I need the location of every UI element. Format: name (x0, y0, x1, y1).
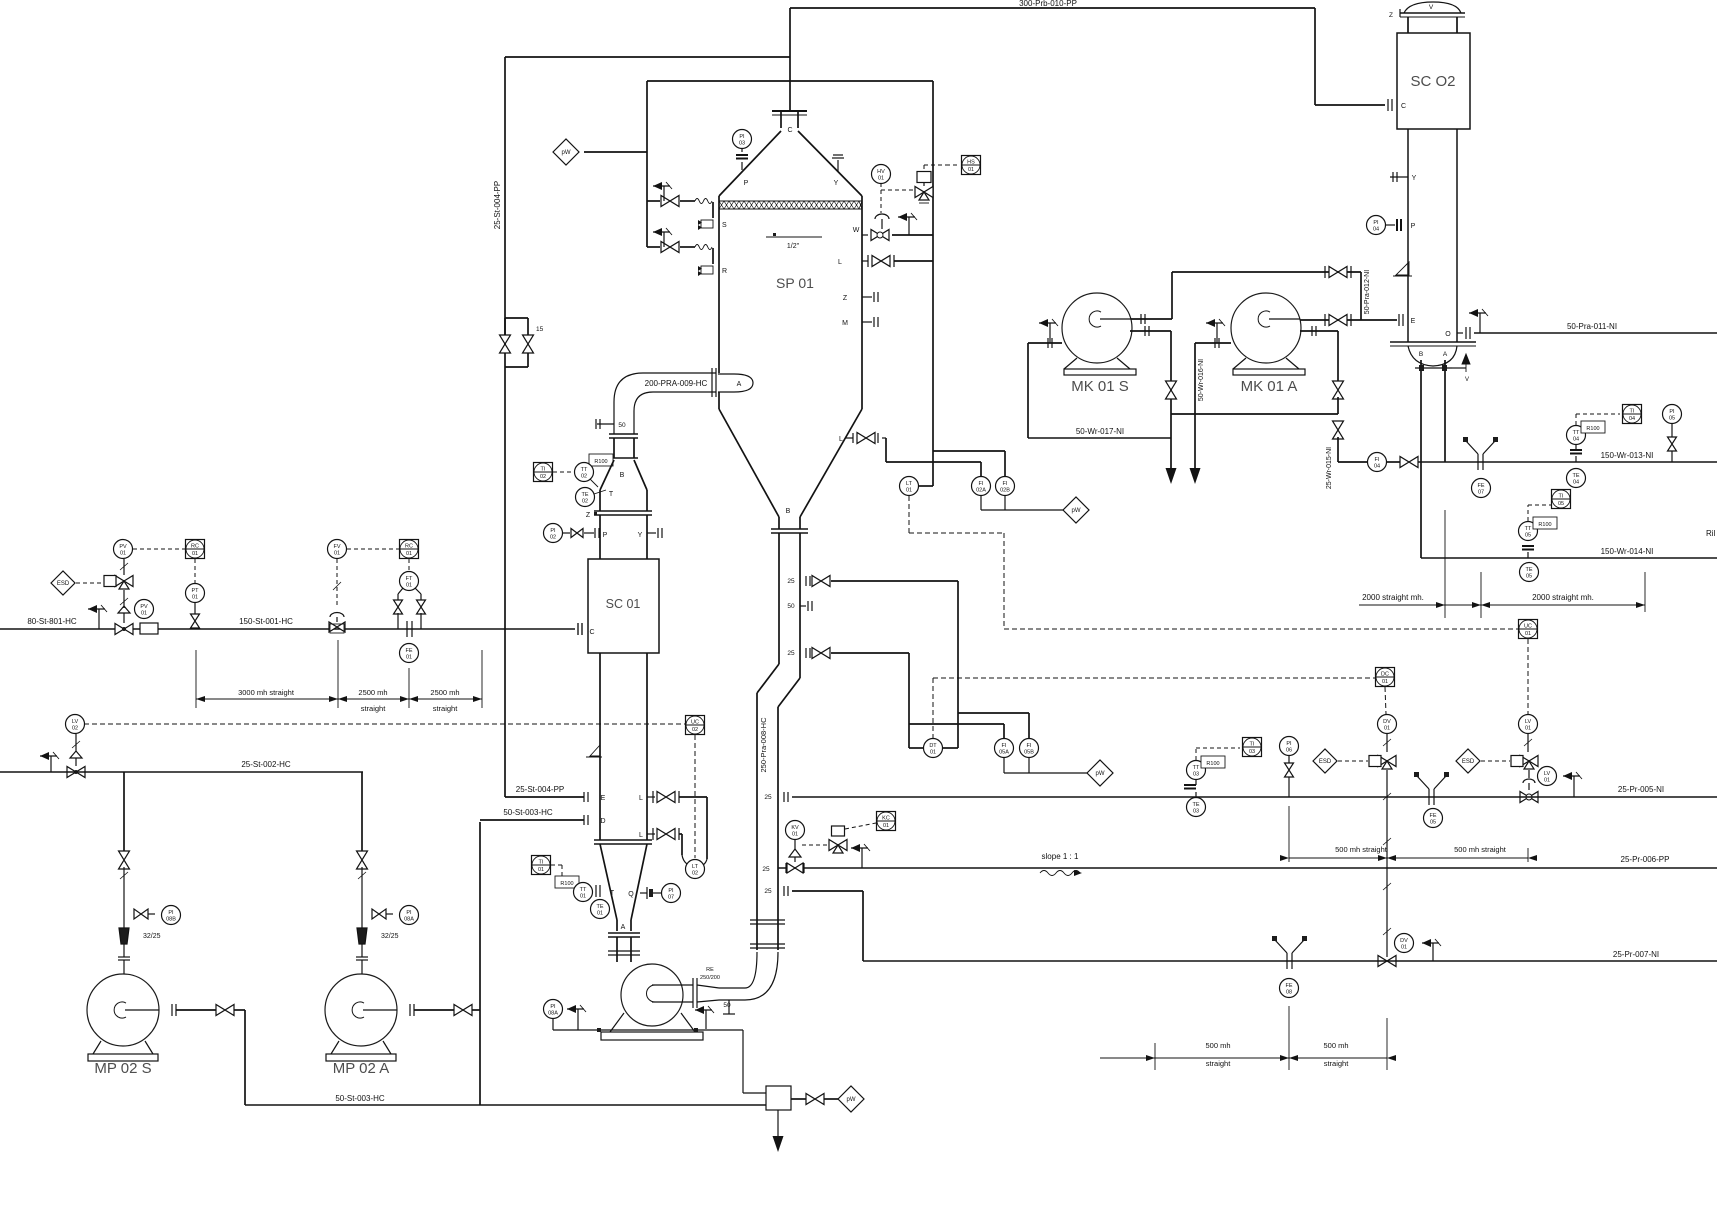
pipe 250-Pra-008-HC upper section (778, 533, 780, 664)
line 25-Pr-007-NI (863, 960, 1717, 962)
instrument UC02 (686, 716, 705, 735)
svg-text:150-St-001-HC: 150-St-001-HC (239, 617, 293, 626)
nozzle Y (1390, 176, 1408, 178)
vessel SC02 barrel (1407, 129, 1409, 342)
svg-text:04: 04 (1629, 416, 1635, 422)
svg-text:B: B (786, 508, 791, 515)
instrument PI05 with valve (1663, 405, 1682, 424)
pipe 250-Pra-008-HC lower section (756, 693, 758, 950)
svg-text:straight: straight (361, 704, 387, 713)
svg-text:500 mh straight: 500 mh straight (1335, 845, 1388, 854)
seal S (701, 220, 713, 228)
svg-text:LV: LV (1525, 719, 1532, 725)
instrument PV01 local (135, 600, 154, 619)
svg-text:Q: Q (628, 891, 634, 898)
instrument LT01 (900, 477, 919, 496)
DT01 to DC01 dashed (932, 678, 934, 739)
svg-text:08B: 08B (166, 917, 176, 923)
svg-text:TE: TE (1572, 473, 1579, 479)
riser to SC01 D (479, 822, 481, 1105)
svg-text:R100: R100 (1538, 522, 1551, 528)
branch PI gauge (361, 907, 363, 928)
drain arrow (777, 1110, 779, 1136)
svg-text:TT: TT (581, 467, 588, 473)
venturi flange (609, 457, 638, 459)
svg-text:V: V (1429, 4, 1434, 11)
svg-text:V: V (1465, 377, 1469, 383)
pump MP02 (87, 974, 159, 1046)
svg-text:T: T (609, 491, 614, 498)
svg-text:UC: UC (1524, 624, 1532, 630)
svg-text:25-Wr-015-NI: 25-Wr-015-NI (1326, 447, 1333, 489)
nozzle C inlet (577, 623, 579, 635)
nozzle A oval (718, 374, 753, 392)
valve spray branch 2 (647, 246, 660, 248)
svg-text:PI: PI (550, 1004, 556, 1010)
wire SP01 top riser (789, 8, 791, 111)
pipe jog (757, 664, 779, 693)
svg-text:04: 04 (1573, 437, 1579, 443)
instrument HV01 (872, 165, 891, 184)
svg-text:LV: LV (1544, 771, 1551, 777)
vessel SC01 body (588, 559, 659, 653)
line 150-Wr-013-NI (1418, 461, 1717, 463)
pump MP01 volute (621, 964, 683, 1026)
seal water line (553, 1029, 743, 1031)
svg-text:KC: KC (882, 816, 890, 822)
svg-text:25-Pr-005-NI: 25-Pr-005-NI (1618, 785, 1664, 794)
svg-text:FE: FE (1285, 983, 1292, 989)
nozzle Y top cone (837, 160, 839, 172)
svg-text:02: 02 (582, 499, 588, 505)
svg-text:TT: TT (1573, 430, 1580, 436)
svg-text:01: 01 (1382, 679, 1388, 685)
MK01A discharge to E (1300, 319, 1397, 321)
line 25-Pr-005-NI (792, 796, 1717, 798)
svg-text:2000 straight mh.: 2000 straight mh. (1532, 593, 1594, 602)
inline silencer (140, 623, 158, 634)
pump base (93, 1041, 101, 1054)
svg-text:04: 04 (1573, 480, 1579, 486)
svg-text:01: 01 (580, 894, 586, 900)
nozzle P with PI02 (544, 524, 563, 543)
svg-text:25-St-004-PP: 25-St-004-PP (493, 181, 502, 229)
svg-text:01: 01 (1544, 778, 1550, 784)
utility diamond pW (838, 1086, 864, 1112)
svg-text:LT: LT (906, 481, 913, 487)
vessel SC01 lower barrel (599, 653, 601, 840)
wire SP01 enclosure box (647, 80, 933, 82)
LT01 to UC01 dashed (908, 496, 910, 533)
svg-text:RC: RC (191, 544, 199, 550)
vent on 801 line (98, 609, 100, 629)
svg-text:HV: HV (877, 169, 885, 175)
svg-text:32/25: 32/25 (381, 933, 399, 940)
svg-text:PV: PV (140, 604, 148, 610)
dimension 3000/2500/2500 (195, 650, 197, 708)
dimension 500mh (on 007) (1154, 1043, 1156, 1070)
svg-text:E: E (601, 795, 606, 802)
node C SC02 inlet flange (1387, 99, 1389, 111)
svg-text:TI: TI (1250, 742, 1255, 748)
svg-text:250/200: 250/200 (700, 975, 720, 981)
PI06 with valve (1280, 737, 1299, 756)
stub 50 on elbow (597, 423, 614, 425)
svg-text:25: 25 (764, 794, 772, 801)
svg-text:L: L (839, 436, 843, 443)
instrument cluster TT01 (532, 856, 551, 875)
svg-text:A: A (1443, 351, 1448, 358)
svg-text:SP 01: SP 01 (776, 275, 814, 291)
instrument RC01 (186, 540, 205, 559)
svg-text:1/2": 1/2" (787, 243, 800, 250)
svg-text:25-St-004-PP: 25-St-004-PP (516, 785, 564, 794)
svg-text:FI: FI (979, 481, 984, 487)
svg-text:03: 03 (1193, 809, 1199, 815)
MK01S lower stub (1130, 330, 1171, 332)
svg-text:Y: Y (1412, 175, 1417, 182)
svg-text:25-St-002-HC: 25-St-002-HC (241, 760, 291, 769)
control valve FV01 (328, 540, 347, 559)
svg-text:O: O (1445, 331, 1451, 338)
svg-text:slope 1 : 1: slope 1 : 1 (1042, 852, 1079, 861)
svg-text:TT: TT (580, 887, 587, 893)
svg-text:50-St-003-HC: 50-St-003-HC (503, 808, 553, 817)
svg-text:08: 08 (1286, 990, 1292, 996)
svg-text:DV: DV (1400, 938, 1408, 944)
svg-text:L: L (838, 259, 842, 266)
svg-text:05: 05 (1526, 574, 1532, 580)
blower MK01 (1231, 293, 1301, 363)
svg-text:R100: R100 (594, 459, 607, 465)
svg-text:01: 01 (406, 583, 412, 589)
svg-text:01: 01 (792, 832, 798, 838)
blower MK01 (1062, 293, 1132, 363)
instrument cluster TT02 (534, 463, 553, 482)
ESD diamond (51, 571, 75, 595)
svg-text:R100: R100 (560, 881, 573, 887)
svg-text:Z: Z (843, 295, 848, 302)
svg-text:TT: TT (1525, 526, 1532, 532)
svg-text:HS: HS (967, 160, 975, 166)
instrument FE01 (400, 644, 419, 663)
SC01 bottom cone (600, 844, 617, 920)
svg-text:FI: FI (1003, 481, 1008, 487)
svg-text:PT: PT (191, 588, 199, 594)
svg-text:PI: PI (739, 134, 745, 140)
venturi cone (600, 460, 614, 490)
vessel SP01 shell walls (718, 196, 720, 373)
vessel SP01 top neck and flange (780, 111, 782, 128)
line 150-Wr-014-NI (1421, 557, 1717, 559)
pump base (331, 1041, 339, 1054)
svg-text:FT: FT (406, 576, 413, 582)
instrument PV01 (114, 540, 133, 559)
svg-text:SC 01: SC 01 (606, 597, 641, 611)
svg-text:TI: TI (1559, 494, 1564, 500)
svg-text:150-Wr-014-NI: 150-Wr-014-NI (1601, 547, 1654, 556)
svg-text:25-Pr-006-PP: 25-Pr-006-PP (1621, 855, 1670, 864)
svg-text:01: 01 (538, 867, 544, 873)
svg-text:150-Wr-013-NI: 150-Wr-013-NI (1601, 451, 1654, 460)
discharge elbow (745, 952, 778, 1000)
svg-text:MK 01 S: MK 01 S (1071, 378, 1129, 395)
svg-text:MK 01 A: MK 01 A (1241, 378, 1298, 395)
svg-text:P: P (1411, 223, 1416, 230)
instrument DT01 (924, 739, 943, 758)
svg-text:05: 05 (1669, 416, 1675, 422)
drain box (766, 1086, 791, 1110)
svg-text:FI: FI (1002, 743, 1007, 749)
reducer 32/25 (357, 928, 367, 944)
svg-text:02: 02 (550, 535, 556, 541)
svg-text:Y: Y (834, 180, 839, 187)
vent on W line (908, 217, 910, 235)
SC02 bottom head (1408, 346, 1457, 366)
svg-text:FE: FE (405, 648, 412, 654)
svg-text:500 mh straight: 500 mh straight (1454, 845, 1507, 854)
instrument R05 on P nozzle (733, 130, 752, 149)
svg-text:PI: PI (1669, 409, 1675, 415)
svg-text:02B: 02B (1000, 488, 1010, 494)
svg-text:01: 01 (968, 167, 974, 173)
vessel SC02 dome (1404, 2, 1461, 13)
svg-text:FI: FI (1375, 457, 1380, 463)
svg-text:LV: LV (72, 719, 79, 725)
svg-text:PI: PI (550, 528, 556, 534)
svg-text:TE: TE (1525, 567, 1532, 573)
valve to FI04 (1333, 421, 1344, 439)
svg-text:02A: 02A (976, 488, 986, 494)
blower base (1064, 358, 1077, 369)
svg-text:TT: TT (1193, 765, 1200, 771)
svg-text:LT: LT (692, 864, 699, 870)
svg-text:25: 25 (764, 888, 772, 895)
instrument PI08A (544, 1000, 563, 1019)
svg-text:TI: TI (1630, 409, 1635, 415)
svg-text:DT: DT (929, 743, 937, 749)
svg-text:UC: UC (691, 720, 699, 726)
svg-text:2500 mh: 2500 mh (358, 688, 387, 697)
svg-text:C: C (1401, 103, 1406, 110)
line 25-St-002-HC (75, 734, 77, 752)
svg-text:DC: DC (1381, 672, 1389, 678)
svg-text:32/25: 32/25 (143, 933, 161, 940)
svg-text:01: 01 (1525, 726, 1531, 732)
svg-text:250-Pra-008-HC: 250-Pra-008-HC (759, 717, 768, 773)
line 25-Pr-006-PP (778, 867, 1717, 869)
svg-text:ESD: ESD (1319, 759, 1332, 765)
discharge valve pump A (414, 1009, 454, 1011)
svg-text:05: 05 (1430, 820, 1436, 826)
svg-text:50-Pra-012-NI: 50-Pra-012-NI (1364, 270, 1371, 314)
svg-text:M: M (842, 320, 848, 327)
svg-text:08A: 08A (404, 917, 414, 923)
svg-text:01: 01 (192, 595, 198, 601)
svg-text:01: 01 (120, 551, 126, 557)
nozzle D (583, 815, 585, 825)
svg-text:300-Prb-010-PP: 300-Prb-010-PP (1019, 0, 1077, 8)
pump suction line (361, 772, 363, 853)
header 50-St-003-HC (245, 1104, 766, 1106)
MK01S discharge (1131, 318, 1172, 320)
svg-text:ESD: ESD (57, 581, 70, 587)
svg-text:B: B (620, 472, 625, 479)
svg-text:04: 04 (1374, 464, 1380, 470)
instrument FI02A FI02B (972, 477, 991, 496)
instrument LV02 (66, 715, 85, 734)
svg-text:80-St-801-HC: 80-St-801-HC (27, 617, 77, 626)
svg-text:50-Wr-017-NI: 50-Wr-017-NI (1076, 427, 1124, 436)
svg-text:03: 03 (739, 141, 745, 147)
svg-text:3000 mh straight: 3000 mh straight (238, 688, 295, 697)
svg-text:DV: DV (1383, 719, 1391, 725)
flanged joint (609, 433, 638, 435)
vessel SP01 top cone (719, 131, 781, 196)
svg-text:25: 25 (787, 578, 795, 585)
svg-text:pW: pW (1072, 508, 1081, 514)
svg-text:04: 04 (1373, 227, 1379, 233)
instrument RC01 second (400, 540, 419, 559)
svg-text:02: 02 (540, 474, 546, 480)
svg-text:L: L (639, 795, 643, 802)
svg-text:A: A (737, 381, 742, 388)
svg-text:P: P (744, 180, 749, 187)
svg-text:R: R (722, 268, 727, 275)
svg-text:PI: PI (1373, 220, 1379, 226)
svg-text:S: S (722, 222, 727, 229)
svg-text:02: 02 (581, 474, 587, 480)
svg-text:01: 01 (334, 551, 340, 557)
instrument PT01 (186, 584, 205, 603)
control valve PV01 3-way (115, 576, 133, 587)
nozzle P with PI04 (1367, 216, 1386, 235)
pipe 200-PRA-009-HC elbow (614, 373, 716, 434)
svg-text:02: 02 (72, 726, 78, 732)
branch PI gauge (123, 907, 125, 928)
svg-text:01: 01 (878, 176, 884, 182)
utility diamond pW (553, 139, 579, 165)
reducer 32/25 (119, 928, 129, 944)
svg-text:KV: KV (791, 825, 799, 831)
svg-text:E: E (1411, 318, 1416, 325)
drain tie with vent (1415, 367, 1452, 369)
instrument LT02 (686, 860, 705, 879)
svg-text:B: B (1419, 351, 1423, 358)
svg-text:MP 02 A: MP 02 A (333, 1060, 389, 1077)
svg-text:07: 07 (1478, 490, 1484, 496)
seal R (701, 266, 713, 274)
svg-text:A: A (621, 924, 626, 931)
svg-text:T: T (610, 890, 615, 897)
svg-text:25: 25 (787, 650, 795, 657)
SC02 bottom flange (1390, 341, 1476, 343)
svg-text:05B: 05B (1024, 750, 1034, 756)
nozzle E (1398, 319, 1400, 321)
svg-text:MP 02 S: MP 02 S (94, 1060, 151, 1077)
svg-text:C: C (589, 629, 594, 636)
svg-text:500 mh: 500 mh (1205, 1041, 1230, 1050)
svg-text:50: 50 (787, 603, 795, 610)
pump discharge (171, 1004, 173, 1016)
svg-text:pW: pW (1096, 771, 1105, 777)
instrument FI04 (1368, 453, 1387, 472)
line W/L enclosure drop (886, 461, 981, 463)
mist eliminator mesh band (719, 200, 862, 202)
svg-text:03: 03 (1249, 749, 1255, 755)
svg-text:50-St-003-HC: 50-St-003-HC (335, 1094, 385, 1103)
svg-text:2000 straight mh.: 2000 straight mh. (1362, 593, 1424, 602)
svg-text:01: 01 (1384, 726, 1390, 732)
svg-text:D: D (600, 818, 605, 825)
svg-text:25-Pr-007-NI: 25-Pr-007-NI (1613, 950, 1659, 959)
valve spray branch 1 (647, 200, 660, 202)
MK01S suction 50-Wr-017-NI (1028, 342, 1062, 344)
svg-text:SC O2: SC O2 (1410, 73, 1455, 90)
hand valve HS01 loop (962, 156, 981, 175)
internal weir triangle (586, 745, 602, 757)
svg-text:07: 07 (668, 895, 674, 901)
svg-text:TE: TE (596, 904, 603, 910)
svg-text:01: 01 (1401, 945, 1407, 951)
blower base (1233, 358, 1246, 369)
svg-text:500 mh: 500 mh (1323, 1041, 1348, 1050)
nozzle E (583, 792, 585, 802)
instrument TT04 cluster (1570, 449, 1582, 451)
wire 300-Prb-010-PP top header (790, 7, 1315, 9)
svg-text:05: 05 (1525, 533, 1531, 539)
svg-text:50: 50 (723, 1002, 731, 1009)
svg-text:PI: PI (668, 888, 674, 894)
globe valve on line (115, 624, 133, 635)
svg-text:02: 02 (692, 871, 698, 877)
svg-text:Y: Y (638, 532, 643, 539)
svg-text:P: P (603, 532, 608, 539)
discharge valve pump S (176, 1009, 216, 1011)
svg-text:pW: pW (847, 1097, 856, 1103)
svg-text:FE: FE (1477, 483, 1484, 489)
reducer RE 250/200 (697, 985, 719, 988)
svg-text:Ril: Ril (1706, 529, 1716, 538)
svg-text:06: 06 (1286, 748, 1292, 754)
orifice FE08 (1286, 953, 1288, 969)
svg-text:pW: pW (562, 150, 571, 156)
svg-text:03: 03 (1193, 772, 1199, 778)
svg-text:01: 01 (1525, 631, 1531, 637)
vessel SC02 body box (1397, 33, 1470, 129)
pump discharge tube (652, 984, 693, 986)
drop legs (1420, 360, 1422, 558)
svg-text:01: 01 (406, 655, 412, 661)
svg-text:50-Wr-016-NI: 50-Wr-016-NI (1198, 359, 1205, 401)
MK01A suction 50-Wr-016-NI (1195, 342, 1231, 344)
MK01A lower stub (1300, 330, 1338, 332)
svg-text:01: 01 (883, 823, 889, 829)
svg-text:50: 50 (618, 422, 626, 429)
svg-text:01: 01 (141, 611, 147, 617)
vessel SP01 bottom cone (719, 409, 779, 517)
svg-text:RE: RE (706, 967, 714, 973)
svg-text:01: 01 (906, 488, 912, 494)
flange pair nozzle A (711, 368, 713, 397)
dimension 2000 straight (1359, 604, 1645, 606)
svg-text:TI: TI (539, 860, 544, 866)
svg-text:RC: RC (405, 544, 413, 550)
svg-text:25: 25 (762, 866, 770, 873)
instrument TT05 cluster (1519, 522, 1538, 541)
TT03 cluster (1184, 784, 1196, 786)
pump discharge (409, 1004, 411, 1016)
